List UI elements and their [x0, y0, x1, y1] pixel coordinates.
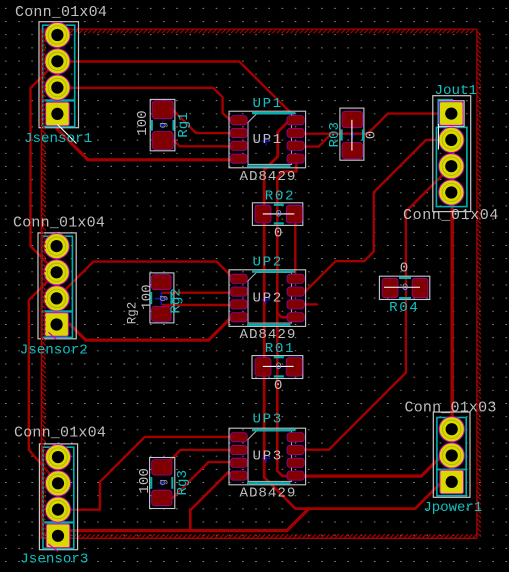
op-amp UP1 AD8429 — [229, 111, 306, 168]
svg-text:g: g — [157, 122, 169, 128]
svg-text:100: 100 — [139, 284, 155, 310]
svg-text:Conn_01x04: Conn_01x04 — [14, 424, 106, 441]
svg-text:0: 0 — [364, 131, 380, 140]
svg-text:UP2: UP2 — [253, 290, 283, 306]
connector Jpower1 Conn_01x03 — [433, 412, 470, 497]
resistor R03 0 — [340, 108, 364, 160]
wire UP2-R3 stub — [297, 303, 317, 305]
svg-text:Jsensor3: Jsensor3 — [20, 552, 88, 568]
wire UP3-L3 to Rg3-bot — [168, 462, 234, 498]
wire Rg2-bot to UP2-L3 — [163, 304, 234, 306]
svg-text:0: 0 — [400, 261, 409, 277]
op-amp UP3 AD8429 — [229, 428, 306, 485]
svg-text:100: 100 — [135, 110, 151, 136]
zone GND hatched outline — [40, 29, 481, 538]
svg-text:0: 0 — [402, 282, 408, 294]
svg-text:Conn_01x04: Conn_01x04 — [15, 4, 107, 21]
wire Jsensor1-p2 left rail to Jsensor2-p2 and Jsensor3-p2 — [29, 62, 58, 484]
svg-text:Jout1: Jout1 — [435, 83, 478, 99]
svg-text:Conn_01x03: Conn_01x03 — [405, 400, 497, 417]
svg-text:R02: R02 — [265, 188, 295, 204]
svg-text:UP3: UP3 — [253, 411, 283, 427]
svg-text:0: 0 — [274, 226, 283, 242]
wire Jsensor2-p4 to UP2-L4 — [58, 317, 235, 340]
svg-text:100: 100 — [137, 468, 153, 494]
wire Jsensor1-p4 to UP1-L4 — [57, 114, 234, 159]
resistor Rg2 100 — [150, 273, 174, 323]
svg-text:AD8429: AD8429 — [240, 486, 297, 502]
wire Rg3-top to UP3-L2 — [166, 450, 234, 465]
svg-text:UP1: UP1 — [253, 96, 283, 112]
svg-text:AD8429: AD8429 — [240, 169, 297, 185]
resistor R02 0 — [252, 203, 302, 226]
svg-text:R04: R04 — [389, 300, 419, 316]
wire Jsensor1-p3 to UP1-L1 — [57, 88, 234, 121]
resistor R01 0 — [252, 356, 303, 379]
wire Jsensor1-p2 to UP1-R1 — [57, 62, 295, 121]
connector Jsensor3 Conn_01x04 — [39, 444, 77, 550]
svg-text:0: 0 — [276, 361, 282, 373]
ratsnest R04 — [384, 286, 420, 288]
ratsnest R03 — [351, 120, 353, 151]
svg-text:Rg2: Rg2 — [169, 288, 185, 314]
wire rail-A UP1-R1 R02-L R01-L to Jpower1-p3 — [264, 120, 452, 508]
wire Rg1-top to UP1-L2 — [163, 110, 234, 133]
ratsnest Jsensor1-p4 — [58, 125, 77, 144]
svg-text:R03: R03 — [327, 122, 343, 148]
svg-text:0: 0 — [274, 378, 283, 394]
pin1 marker B.SilkS Jsensor2 — [49, 332, 57, 340]
svg-text:g: g — [157, 479, 169, 485]
resistor Rg1 100 — [150, 99, 175, 150]
connector Jsensor1 Conn_01x04 — [39, 22, 79, 128]
wire R02-R to UP2-R1 — [294, 214, 296, 276]
svg-text:Jpower1: Jpower1 — [423, 500, 482, 516]
wire Jout1-p3 to UP3-R2 — [302, 166, 451, 450]
wire Jsensor3-p4 bottom run — [58, 509, 309, 536]
wire Jsensor3-p3 to UP3-L1 — [58, 437, 234, 510]
ratsnest Jout1-p2 — [437, 124, 439, 150]
svg-text:g: g — [157, 295, 169, 301]
svg-text:Jsensor2: Jsensor2 — [20, 342, 88, 358]
svg-text:R01: R01 — [265, 341, 295, 357]
wire UP1-R3 stub join — [297, 134, 331, 147]
svg-text:UP3: UP3 — [253, 449, 283, 465]
resistor R04 0 — [379, 276, 429, 299]
svg-text:Conn_01x04: Conn_01x04 — [13, 215, 105, 232]
pin1 marker B.SilkS Jsensor3 — [48, 544, 58, 552]
svg-text:Jsensor1: Jsensor1 — [24, 131, 92, 147]
zone left edge hatch overlay — [42, 33, 46, 538]
op-amp UP2 AD8429 — [229, 270, 306, 327]
wire Jout1-p2 to UP2-R2 — [303, 140, 452, 292]
wire UP3-L4 branch down — [190, 472, 231, 530]
wire rail-B UP1-R4 down — [277, 160, 296, 476]
svg-text:Rg3: Rg3 — [175, 470, 191, 496]
svg-text:UP2: UP2 — [253, 254, 283, 270]
wire Rg1-bot to UP1-L3 — [163, 141, 234, 147]
wire Jsensor2-p3 to UP2-L1 — [57, 262, 234, 299]
wire UP1-R2 to Jout1-p1 — [297, 114, 451, 134]
wire Rg2-top to UP2-L2 — [163, 292, 234, 294]
ratsnest R01 — [263, 365, 294, 367]
svg-text:Rg2: Rg2 — [125, 302, 139, 325]
connector Jsensor2 Conn_01x04 — [38, 233, 76, 339]
svg-text:0: 0 — [276, 208, 282, 220]
ratsnest R02 — [263, 213, 295, 215]
connector Jout1 Conn_01x04 — [433, 96, 471, 212]
wire rail-B jog into UP2-R4 — [277, 313, 288, 317]
svg-text:UP1: UP1 — [253, 132, 283, 148]
resistor Rg3 100 — [150, 458, 175, 509]
svg-text:Rg1: Rg1 — [176, 112, 192, 138]
svg-text:Conn_01x04: Conn_01x04 — [403, 207, 499, 224]
wire Jout1-p4 to Jpower1-p1 — [451, 193, 454, 430]
wire UP3-R4 to Jpower1-p2 — [297, 456, 452, 477]
